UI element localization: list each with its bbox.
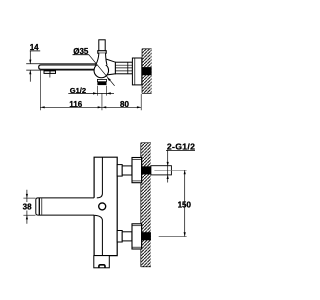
body circle (94, 63, 109, 78)
supply pipe center line (154, 169, 186, 171)
dim line 80 (102, 106, 141, 108)
dim 38 lower tail (26, 215, 28, 224)
ext lines 38 (23, 197, 35, 199)
2-G1/2 arrow (167, 162, 169, 166)
dim 38 arrow down (26, 194, 28, 198)
top wall thread black (141, 166, 151, 174)
dim 14 line lower segment (29, 70, 31, 82)
G1/2 leader line (68, 92, 106, 94)
supply pipe behind wall (151, 166, 172, 175)
thread divider (127, 62, 129, 74)
top union stub (117, 165, 122, 177)
O35 leader (89, 55, 115, 86)
svg-text:80: 80 (120, 100, 129, 109)
body outline (94, 157, 117, 255)
extension line 80 right (140, 94, 142, 110)
dim 14 line upper segment (29, 51, 31, 64)
G1/2 thread white collar under circle (97, 79, 106, 81)
bottom escutcheon (132, 224, 142, 249)
G1/2 arrow right (93, 92, 97, 94)
spout outer bottom line (26, 69, 94, 71)
spout cap bold line (38, 198, 40, 215)
neck right edge (106, 53, 108, 65)
dim 38 arrow up (26, 215, 28, 219)
bottom wall thread black (141, 232, 151, 240)
wall hatch (front view) (141, 143, 151, 267)
dim 14 underline (30, 50, 40, 52)
neck left edge (96, 53, 99, 65)
wall top/bottom edges (141, 142, 151, 144)
top union pipe (122, 166, 132, 175)
svg-text:150: 150 (178, 201, 192, 210)
arrow left 116 (40, 106, 44, 108)
hose connector arch (99, 265, 105, 268)
2-G1/2 underline (166, 149, 195, 151)
arrow right 116 (98, 106, 102, 108)
dim 38 mid segments (26, 198, 28, 202)
pipe bottom up-arrow (167, 175, 169, 183)
wall edges (142, 48, 152, 50)
2-G1/2 leader (167, 150, 169, 175)
O35 underline (73, 54, 89, 56)
G1/2 thread black under circle (97, 82, 106, 85)
lever collar (98, 51, 106, 54)
spout cap thin line (41, 198, 43, 214)
body inner line lower with fillet (94, 215, 102, 255)
arrow down 150 (184, 232, 186, 236)
O35 arrowhead (107, 78, 111, 81)
thread block (115, 62, 132, 74)
svg-text:116: 116 (69, 100, 82, 109)
arrow up 150 (184, 170, 186, 174)
diverter circle (99, 203, 106, 210)
dim 14 arrow up (29, 70, 31, 74)
svg-text:38: 38 (23, 202, 32, 211)
extension line 116 left (39, 70, 41, 110)
arrow left 80 (102, 106, 106, 108)
bottom union stub (117, 231, 122, 243)
spout front view (36, 198, 94, 215)
G1/2 right arrow (107, 92, 111, 94)
wall left edge (140, 143, 142, 267)
dim 38 upper tail (26, 190, 28, 198)
dim 150 line (184, 170, 186, 236)
flange escutcheon (132, 58, 141, 85)
bottom outlet (94, 256, 110, 268)
spout capsule (side view) (39, 65, 97, 69)
lever handle (99, 40, 105, 51)
G1/2 right tail (107, 92, 115, 94)
wall thread black (142, 67, 152, 75)
neck fill (96, 53, 107, 65)
taper connector (106, 59, 116, 75)
bottom union pipe (122, 232, 132, 241)
body inner line upper with fillet (97, 157, 103, 198)
dim line 116 (40, 106, 102, 108)
dim 14 arrow down (29, 60, 31, 64)
center extension line (101, 93, 103, 110)
thread lines (115, 64, 132, 66)
arrow right 80 (137, 106, 141, 108)
wall hatch (top view) (142, 49, 152, 94)
thread extension lines (96, 86, 98, 96)
top escutcheon (132, 158, 142, 183)
spout outer top line (26, 63, 96, 65)
aerator tabs (44, 71, 50, 74)
aerator tick (49, 74, 51, 78)
extension line 150 bottom (159, 236, 187, 238)
flange inner line (134, 58, 136, 85)
